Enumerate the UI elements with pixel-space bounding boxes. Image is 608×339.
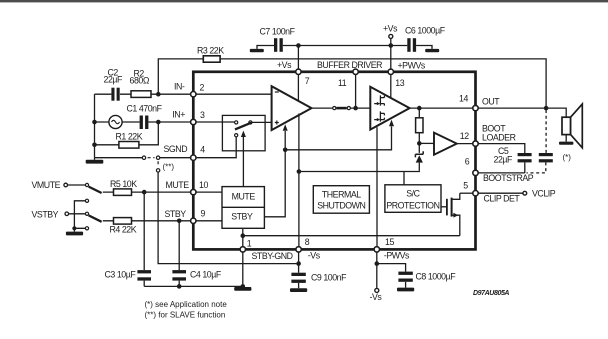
wire: buffer input [419, 142, 434, 144]
capacitor C1 [140, 116, 149, 130]
wire: left input ground rail [94, 94, 96, 158]
junction MUTE/C3 [142, 190, 147, 195]
svg-text:C1 470nF: C1 470nF [127, 103, 163, 113]
wire: pin5 clip line [460, 192, 476, 194]
svg-text:SHUTDOWN: SHUTDOWN [317, 200, 365, 210]
resistor R2 [131, 91, 151, 98]
resistor R3 [203, 56, 220, 62]
svg-text:14: 14 [459, 94, 468, 104]
wire: C4 branch [178, 221, 180, 287]
svg-text:C4 10µF: C4 10µF [190, 269, 222, 279]
wire: switch to op-amp + input [252, 121, 272, 123]
wire: bottom ground rail y=286.4 [144, 285, 243, 287]
switch SW-stby [85, 212, 88, 215]
wire: rail to C8 [377, 264, 406, 288]
junction on IN- line [156, 92, 161, 97]
internal rail to S/C and pin8 line [299, 170, 419, 185]
capacitor C7 [274, 38, 283, 52]
stby control line to power stage [285, 126, 391, 149]
wire: pin8 down / C9 [298, 249, 300, 288]
zener diode [418, 143, 420, 170]
wire: op-amp output jumper [312, 107, 371, 109]
internal resistor [418, 108, 420, 143]
wire: power amp to pin15 [376, 127, 378, 249]
wire: slave terminal down to -Vs rail [158, 172, 299, 264]
svg-text:5: 5 [463, 180, 468, 190]
svg-text:VMUTE: VMUTE [32, 180, 61, 190]
wire: pin13 stub into power amp [390, 72, 392, 98]
wire: feedback net from IN- up over IC to OUT [158, 59, 546, 108]
svg-text:R4 22K: R4 22K [110, 225, 137, 235]
svg-text:CLIP DET: CLIP DET [484, 194, 521, 204]
resistor R4 [114, 218, 132, 225]
capacitor C3 [137, 270, 151, 280]
MUTE/STBY block [222, 187, 264, 229]
svg-text:(**) for SLAVE function: (**) for SLAVE function [145, 311, 226, 320]
mosfet glyph upper [374, 95, 384, 105]
pin 11 [353, 69, 358, 74]
stby control arrow to op-amp [264, 131, 285, 217]
svg-text:C9 100nF: C9 100nF [311, 273, 347, 283]
capacitor C-star optional [539, 153, 553, 162]
wire VSTBY to switch [69, 213, 86, 215]
top border rule [0, 0, 608, 2]
svg-text:22µF: 22µF [494, 154, 514, 164]
dashed link OUT to optional cap and bootstrap [527, 110, 547, 173]
wire: C2 input line y=94.2 [95, 93, 194, 95]
svg-text:+Vs: +Vs [383, 24, 398, 34]
ground (C7) [257, 46, 274, 49]
wire: top supply rail y=45.5 [283, 45, 408, 47]
svg-text:-Vs: -Vs [370, 292, 383, 302]
wire: switch ground contact to pin4 (SGND) [193, 137, 236, 158]
svg-text:-Vs: -Vs [308, 251, 321, 261]
svg-text:11: 11 [338, 78, 347, 88]
svg-text:VCLIP: VCLIP [532, 189, 556, 199]
svg-text:7: 7 [305, 76, 310, 86]
svg-text:C3 10µF: C3 10µF [105, 269, 137, 279]
clip detect MOSFET Q1 [441, 206, 447, 208]
svg-text:PROTECTION: PROTECTION [386, 200, 439, 210]
node -Vs terminal [375, 288, 379, 292]
power amp triangle [370, 87, 409, 130]
resistor R5 [114, 189, 132, 196]
node VCLIP terminal [523, 191, 527, 195]
capacitor C2 [111, 88, 119, 101]
junction STBY/C4 [177, 219, 182, 224]
svg-text:+Vs: +Vs [277, 60, 292, 70]
svg-text:4: 4 [200, 145, 205, 155]
svg-text:8: 8 [305, 237, 310, 247]
svg-text:STBY: STBY [165, 209, 187, 219]
svg-text:LOADER: LOADER [482, 132, 516, 142]
speaker LS1 [562, 117, 571, 134]
svg-text:-PWVs: -PWVs [384, 251, 410, 261]
bootloader buffer triangle [434, 133, 457, 155]
svg-text:STBY-GND: STBY-GND [252, 251, 293, 261]
internal logic rail [243, 235, 460, 237]
svg-text:6: 6 [465, 157, 470, 167]
svg-text:R1 22K: R1 22K [116, 131, 143, 141]
svg-text:12: 12 [460, 131, 469, 141]
wire: SGND line y=157.7 [95, 157, 194, 159]
capacitor C9 [291, 273, 305, 283]
ground (switches) [66, 232, 83, 236]
pin 1 [240, 247, 245, 252]
svg-text:13: 13 [395, 78, 404, 88]
pin 5 [473, 191, 478, 196]
wire: pin15 down to -Vs terminal [376, 249, 378, 288]
svg-text:680Ω: 680Ω [130, 76, 150, 86]
svg-text:MUTE: MUTE [232, 191, 256, 201]
svg-text:IN+: IN+ [172, 110, 185, 120]
capacitor C5 [518, 153, 532, 162]
svg-text:C7 100nF: C7 100nF [260, 26, 296, 36]
wire: pin3 to switch box [193, 121, 234, 123]
ground (C9) [290, 288, 307, 292]
wire: pin10 to MUTE block [193, 191, 222, 193]
pin 15 [374, 247, 379, 252]
switch SW-mute [85, 183, 88, 186]
mosfet glyph lower [374, 111, 384, 121]
input mute switch box [222, 115, 265, 150]
pin 3 [191, 119, 196, 124]
wire: pin5 to VCLIP [476, 192, 523, 194]
svg-text:SGND: SGND [164, 144, 188, 154]
node (**) slave terminal [157, 161, 159, 167]
svg-text:R3 22K: R3 22K [197, 45, 224, 55]
wire: buffer output to pin12 [457, 143, 476, 145]
wire: MUTE line y=192.1 [103, 191, 194, 193]
resistor R1 [119, 142, 139, 149]
pin 9 [191, 218, 196, 223]
pin 8 [296, 247, 301, 252]
ground (input) [94, 158, 96, 160]
pin 2 [191, 92, 196, 97]
IC box U1 [193, 72, 475, 250]
wire: IN- to op-amp [193, 93, 271, 95]
wire: pin9 to STBY block [193, 220, 222, 222]
mute control arrow [242, 136, 244, 187]
svg-text:THERMAL: THERMAL [322, 189, 361, 199]
svg-text:2: 2 [200, 83, 205, 93]
svg-text:BUFFER DRIVER: BUFFER DRIVER [317, 60, 382, 70]
wire VMUTE to switch [68, 184, 86, 186]
ground (C8) [397, 288, 414, 292]
svg-text:C6 1000µF: C6 1000µF [405, 26, 446, 36]
svg-text:(**): (**) [163, 163, 175, 172]
pin 4 [191, 155, 196, 160]
SGND jumper open circles [142, 156, 145, 159]
pin 7 [296, 69, 301, 74]
wire: op-amp negative supply to pin8 [298, 114, 300, 250]
junction IN+ / R1 [156, 120, 161, 125]
pin 13 [388, 69, 393, 74]
svg-text:STBY: STBY [231, 212, 253, 222]
svg-text:22µF: 22µF [104, 75, 124, 85]
wire: power amp output to pin14 [410, 107, 476, 109]
svg-text:9: 9 [201, 208, 206, 218]
wire: pin14 OUT line [476, 108, 567, 117]
svg-text:(*): (*) [563, 153, 572, 162]
capacitor C4 [172, 270, 186, 280]
svg-text:OUT: OUT [482, 96, 500, 106]
pin 10 [191, 189, 196, 194]
wire: C5 to bootstrap pin6 [476, 162, 525, 173]
wire: pin11 stub [355, 72, 357, 108]
ground (stby-gnd) [234, 287, 251, 291]
S/C PROTECTION block [385, 185, 441, 213]
pin 12 [473, 141, 478, 146]
svg-text:10: 10 [199, 180, 208, 190]
wire: pin7 stub into op-amp [297, 72, 299, 100]
capacitor C6 [407, 38, 416, 52]
wire: C3 branch [143, 192, 145, 286]
op-amp U1a [272, 86, 312, 130]
svg-text:MUTE: MUTE [166, 180, 190, 190]
wire: pin12 to C5 [476, 144, 525, 153]
THERMAL SHUTDOWN block [313, 186, 369, 214]
ground (C6) [416, 46, 432, 49]
wire: R1 branch [95, 122, 159, 145]
svg-text:(*) see Application note: (*) see Application note [145, 300, 228, 309]
svg-text:3: 3 [200, 110, 205, 120]
svg-text:BOOTSTRAP: BOOTSTRAP [483, 173, 534, 183]
svg-text:IN-: IN- [174, 81, 185, 91]
svg-text:15: 15 [385, 237, 394, 247]
wire: pin1 to ground [242, 249, 244, 287]
svg-text:S/C: S/C [406, 189, 420, 199]
wire: switch ground rail [74, 201, 85, 232]
svg-text:+PWVs: +PWVs [398, 61, 426, 71]
svg-text:C8 1000µF: C8 1000µF [416, 272, 457, 282]
wire: C7 junction to pin7 [297, 46, 299, 72]
wire: +Vs stub to pin13 [390, 38, 392, 71]
signal source V1 [109, 115, 122, 128]
svg-text:R5 10K: R5 10K [110, 179, 137, 189]
pin 14 [473, 105, 478, 110]
ground (speaker) [559, 142, 573, 145]
svg-text:1: 1 [247, 238, 252, 248]
wire: STBY line y=220.8 [103, 220, 194, 222]
wire: IN+ line y=122 [95, 121, 194, 123]
pin 6 [473, 170, 478, 175]
svg-text:D97AU805A: D97AU805A [473, 290, 509, 297]
capacitor C8 [398, 272, 412, 282]
svg-text:VSTBY: VSTBY [32, 209, 59, 219]
